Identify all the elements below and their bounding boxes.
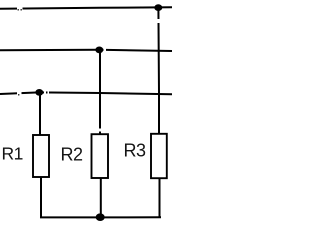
wire R2 top vertical bbox=[99, 50, 101, 135]
node junction dot J3 bbox=[35, 89, 43, 96]
wire bus line 1 (top) bbox=[0, 7, 172, 9]
wire scan break on line 2 after dot J2 bbox=[104, 48, 107, 52]
svg-text:R1: R1 bbox=[2, 144, 23, 164]
node junction dot J2 bbox=[95, 47, 103, 54]
wire scan break in R3 top wire bbox=[157, 19, 161, 23]
wire R1 top vertical bbox=[39, 92, 41, 135]
wire R1 bottom vertical bbox=[40, 177, 42, 218]
wire bus line 2 (middle) bbox=[0, 50, 172, 51]
wire bus line 3 (lower) bbox=[0, 92, 172, 94]
wire R3 top vertical bbox=[157, 8, 160, 135]
wire scan break on line 3 bbox=[17, 91, 22, 96]
wire scan break in R2 top wire bbox=[99, 129, 103, 132]
resistor R3 body bbox=[151, 134, 167, 178]
resistor R2 body bbox=[92, 134, 109, 178]
wire scan break on line 1 bbox=[17, 6, 23, 11]
svg-text:R3: R3 bbox=[124, 141, 146, 161]
wire scan break on line 3 after dot J3 bbox=[44, 91, 46, 95]
node junction dot J1 bbox=[154, 4, 162, 11]
wire bottom bus bbox=[40, 216, 161, 218]
resistor R1 body bbox=[33, 135, 49, 177]
wire R2 bottom vertical bbox=[100, 178, 102, 218]
svg-text:R2: R2 bbox=[61, 144, 83, 164]
node junction dot J4 (bottom) bbox=[96, 213, 105, 221]
wire R3 bottom vertical bbox=[159, 178, 161, 218]
